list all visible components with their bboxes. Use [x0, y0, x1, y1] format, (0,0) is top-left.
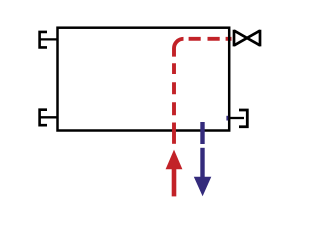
- flow line corner (red solid): [174, 39, 184, 57]
- stub top-left: [40, 38, 58, 40]
- flow arrow shaft (red): [172, 168, 177, 196]
- radiator body: [58, 28, 230, 131]
- return arrow head (blue): [194, 177, 212, 197]
- stub bottom-left: [40, 116, 58, 118]
- return mark on right edge (blue tick): [226, 116, 228, 121]
- flow arrow head (red): [166, 150, 183, 170]
- tapping bracket top-left: [40, 32, 47, 48]
- return arrow shaft (blue): [200, 148, 204, 178]
- tapping bracket bottom-left: [40, 110, 47, 126]
- flow line horizontal (red dashed, under radiator edge): [184, 37, 232, 41]
- flow line vertical (red dashed): [172, 63, 176, 115]
- stub right: [229, 117, 245, 119]
- flow line bottom segment (red, over radiator edge): [172, 123, 176, 144]
- tapping bracket right: [239, 110, 247, 127]
- valve V1: [234, 30, 260, 47]
- return line segment (blue, over radiator edge): [200, 122, 204, 144]
